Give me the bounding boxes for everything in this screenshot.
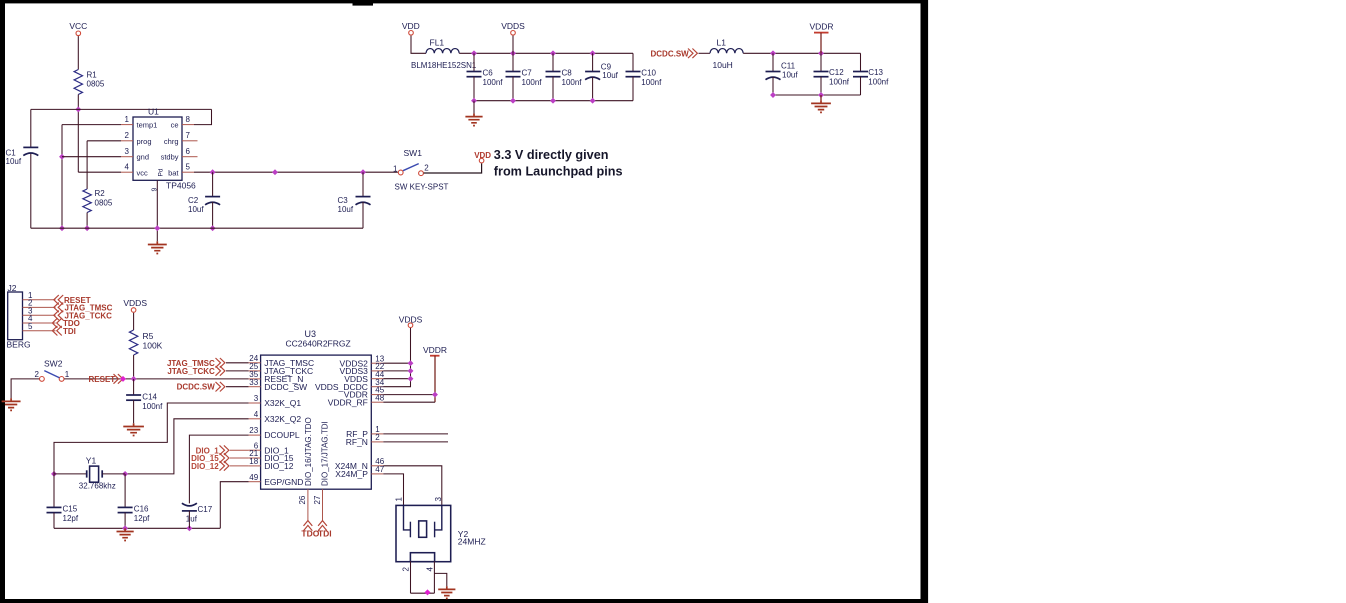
pin 2 of Y2: [410, 561, 412, 593]
node: [122, 471, 128, 477]
svg-text:DIO_12: DIO_12: [191, 462, 219, 471]
net flag TDI 2: [318, 521, 327, 526]
wire: [383, 378, 410, 380]
ground: [124, 528, 126, 531]
pin 3 gnd: [121, 156, 133, 158]
ground: [473, 113, 475, 116]
op IC U1 TP4056: [133, 117, 182, 180]
svg-text:10uf: 10uf: [6, 157, 22, 166]
resistor R2: [83, 189, 91, 213]
node VCC rail junction: [75, 106, 81, 112]
svg-text:2: 2: [401, 567, 410, 572]
capacitor C15: [53, 474, 55, 507]
wire to ground: [11, 379, 39, 398]
capacitor C2: [212, 172, 214, 196]
pin 23 DCOUPL: [249, 434, 261, 436]
net flag TDI: [57, 326, 62, 336]
svg-text:X32K_Q2: X32K_Q2: [264, 414, 301, 424]
svg-text:1: 1: [65, 370, 70, 379]
svg-text:18: 18: [249, 457, 258, 466]
pin 24 JTAG_TMSC: [249, 362, 261, 364]
svg-text:U3: U3: [305, 329, 317, 339]
node: [818, 50, 824, 56]
pin 2 RF_N: [371, 441, 383, 443]
node: [408, 368, 414, 374]
wire to VDD: [424, 163, 482, 173]
svg-text:2: 2: [424, 164, 429, 173]
node: [590, 50, 596, 56]
pin 1 of J2: [23, 299, 56, 301]
pin 34 VDDS_DCDC: [371, 386, 383, 388]
svg-text:10uH: 10uH: [713, 60, 733, 70]
svg-text:10uf: 10uf: [338, 205, 354, 214]
svg-text:3: 3: [254, 394, 259, 403]
node: [408, 360, 414, 366]
capacitor C14: [133, 379, 135, 395]
svg-text:SW2: SW2: [44, 359, 63, 369]
pin 3 X32K_Q1: [249, 402, 261, 404]
svg-text:47: 47: [375, 465, 384, 474]
net flag RESET: [58, 295, 63, 305]
pin 13 VDDS2: [371, 362, 383, 364]
wire: [133, 313, 135, 330]
pin 27 stub: [322, 489, 324, 520]
svg-text:JTAG_TCKC: JTAG_TCKC: [167, 367, 215, 376]
node: [131, 376, 137, 382]
ferrite bead FL1: [426, 49, 459, 54]
svg-text:C15: C15: [63, 505, 78, 514]
svg-text:12pf: 12pf: [63, 514, 79, 523]
node: [122, 525, 128, 531]
ground: [446, 586, 448, 589]
net flag TDO: [57, 318, 62, 328]
svg-text:R1: R1: [87, 71, 98, 80]
wire RF_P: [383, 433, 448, 435]
svg-text:DCDC.SW: DCDC.SW: [177, 383, 216, 392]
wire: [699, 52, 711, 54]
svg-text:RF_N: RF_N: [346, 437, 368, 447]
svg-text:7: 7: [186, 131, 191, 140]
node: [154, 225, 160, 231]
pin 25 JTAG_TCKC: [249, 370, 261, 372]
svg-text:24MHZ: 24MHZ: [458, 537, 486, 547]
wire VDDS vertical: [383, 328, 410, 387]
wire: [383, 401, 435, 403]
svg-text:C12: C12: [829, 68, 844, 77]
ground: [10, 398, 12, 401]
pin 8 ce: [182, 124, 194, 126]
svg-text:U1: U1: [148, 107, 159, 117]
capacitor C6: [473, 53, 475, 71]
svg-text:DIO_12: DIO_12: [264, 461, 294, 471]
svg-text:DIO_17/JTAG.TDI: DIO_17/JTAG.TDI: [321, 421, 330, 486]
inductor L1: [710, 49, 743, 54]
svg-text:stdby: stdby: [161, 153, 179, 162]
crystal Y2 24MHZ: [396, 505, 451, 561]
svg-text:1uf: 1uf: [186, 515, 198, 524]
svg-text:23: 23: [249, 426, 258, 435]
svg-text:2: 2: [35, 370, 40, 379]
svg-text:Pd: Pd: [158, 168, 165, 176]
wire: [411, 36, 426, 54]
svg-text:1: 1: [393, 164, 398, 173]
pin 47 X24M_P: [371, 473, 383, 475]
pin 4 X32K_Q2: [249, 418, 261, 420]
pin 22 VDDS3: [371, 370, 383, 372]
pin 5 of J2: [23, 330, 56, 332]
wire bat net: [194, 171, 398, 173]
pin 44 VDDS: [371, 378, 383, 380]
svg-text:C13: C13: [868, 68, 883, 77]
pin 48 VDDR_RF: [371, 401, 383, 403]
capacitor C7: [512, 53, 514, 71]
pin 46 X24M_N: [371, 465, 383, 467]
svg-text:R2: R2: [95, 189, 106, 198]
node: [818, 92, 824, 98]
svg-text:0805: 0805: [87, 80, 105, 89]
svg-text:vcc: vcc: [137, 168, 149, 177]
node: [550, 98, 556, 104]
node marker 2: [425, 589, 431, 595]
wire: [77, 95, 79, 173]
resistor R1: [74, 70, 82, 95]
svg-text:chrg: chrg: [164, 137, 179, 146]
pin 49 EGP/GND: [249, 481, 261, 483]
capacitor C12: [820, 53, 822, 71]
pin 5 bat: [182, 171, 194, 173]
wire pin2 net: [87, 140, 121, 142]
wire RESET net: [64, 378, 248, 380]
wire bottom rail 2: [773, 94, 861, 96]
wire X32K_Q1 net: [54, 403, 249, 471]
svg-text:gnd: gnd: [137, 153, 150, 162]
node: [590, 98, 596, 104]
svg-text:C8: C8: [562, 68, 573, 77]
wire: [230, 465, 249, 467]
capacitor C13: [860, 53, 862, 71]
net flag JTAG_TMSC: [58, 303, 63, 313]
capacitor C3: [362, 172, 364, 196]
node: [510, 98, 516, 104]
wire: [133, 355, 135, 379]
pin 45 VDDR: [371, 394, 383, 396]
wire EGP/GND net: [220, 482, 248, 529]
svg-text:12pf: 12pf: [134, 514, 150, 523]
svg-text:100nf: 100nf: [142, 402, 163, 411]
pin 6 DIO_1: [249, 449, 261, 451]
wire bottom rail: [474, 100, 633, 102]
wire pin1 net: [62, 124, 121, 126]
pin 9 wire: [156, 180, 158, 241]
pin 1 temp1: [121, 124, 133, 126]
pin 2 of J2: [23, 306, 56, 308]
node: [550, 50, 556, 56]
wire: [411, 592, 435, 594]
svg-text:100nf: 100nf: [562, 78, 583, 87]
capacitor C11: [772, 53, 774, 71]
svg-text:0805: 0805: [95, 199, 113, 208]
pin 1 RF_P: [371, 433, 383, 435]
svg-text:4: 4: [125, 163, 130, 172]
svg-text:8: 8: [186, 115, 191, 124]
svg-text:VDDS: VDDS: [123, 298, 147, 308]
svg-text:C6: C6: [483, 68, 494, 77]
node: [272, 169, 278, 175]
svg-text:1: 1: [394, 497, 403, 502]
pin 33 DCDC_SW: [249, 386, 261, 388]
node: [510, 50, 516, 56]
wire VDDR rail: [743, 52, 860, 54]
wire: [226, 370, 249, 372]
wire RF_N: [383, 441, 448, 443]
wire X24M_N: [383, 466, 442, 506]
node: [59, 225, 65, 231]
node: [471, 98, 477, 104]
svg-text:10uf: 10uf: [188, 205, 204, 214]
wire: [230, 449, 249, 451]
svg-text:SW KEY-SPST: SW KEY-SPST: [395, 182, 449, 191]
svg-text:RESET: RESET: [89, 375, 116, 384]
pin 4 of Y2: [433, 561, 435, 593]
svg-text:49: 49: [249, 473, 258, 482]
wire: [473, 101, 475, 114]
svg-text:5: 5: [186, 163, 191, 172]
wire: [383, 394, 435, 396]
node: [186, 525, 192, 531]
node C3: [360, 169, 366, 175]
svg-text:100nf: 100nf: [483, 78, 504, 87]
svg-text:temp1: temp1: [137, 121, 158, 130]
ground: [156, 241, 158, 244]
resistor R5: [129, 330, 137, 355]
wire: [226, 386, 249, 388]
wire DCOUPL net: [189, 435, 248, 503]
pin 7 chrg: [182, 140, 198, 142]
svg-text:prog: prog: [137, 137, 152, 146]
svg-text:X32K_Q1: X32K_Q1: [264, 398, 301, 408]
svg-text:C7: C7: [522, 68, 533, 77]
pin 6 stdby: [182, 156, 198, 158]
wire left vertical: [30, 109, 32, 147]
svg-text:bat: bat: [168, 168, 179, 177]
svg-text:10uf: 10uf: [782, 70, 798, 79]
wire X32K_Q2 net: [125, 419, 249, 474]
wire: [226, 362, 249, 364]
svg-text:X24M_P: X24M_P: [335, 469, 368, 479]
pin 4 vcc: [121, 171, 133, 173]
svg-text:100nf: 100nf: [641, 78, 662, 87]
svg-text:C14: C14: [142, 392, 157, 401]
wire: [383, 362, 410, 364]
pin 2 prog: [121, 140, 133, 142]
svg-text:DCDC.SW: DCDC.SW: [651, 50, 690, 59]
svg-text:C11: C11: [781, 61, 796, 70]
node: [770, 92, 776, 98]
svg-text:6: 6: [186, 147, 191, 156]
svg-text:L1: L1: [717, 37, 727, 47]
svg-text:32.768khz: 32.768khz: [79, 482, 116, 491]
capacitor C1: [23, 146, 38, 148]
node marker: [120, 376, 126, 382]
pin 35 RESET_N: [249, 378, 261, 380]
svg-text:VDDR: VDDR: [423, 345, 447, 355]
svg-text:DCDC_SW: DCDC_SW: [264, 382, 307, 392]
node: [471, 50, 477, 56]
pin 3 of J2: [23, 314, 56, 316]
svg-text:3: 3: [434, 497, 443, 502]
wire pin4 net: [78, 171, 121, 173]
svg-text:R5: R5: [143, 331, 154, 341]
svg-text:ce: ce: [171, 121, 179, 130]
wire VDDS rail: [459, 52, 633, 54]
net flag JTAG_TCKC: [58, 311, 63, 321]
svg-text:3: 3: [125, 147, 130, 156]
svg-text:VDD: VDD: [402, 21, 420, 31]
pin 18 DIO_12: [249, 465, 261, 467]
svg-text:EGP/GND: EGP/GND: [264, 477, 303, 487]
svg-text:VDDS: VDDS: [501, 21, 525, 31]
svg-text:C3: C3: [338, 196, 349, 205]
svg-text:10uf: 10uf: [602, 71, 618, 80]
node: [770, 50, 776, 56]
ground: [133, 423, 135, 426]
wire bottom rail 3: [54, 527, 220, 529]
svg-text:4: 4: [425, 567, 434, 572]
wire to ground: [434, 573, 446, 586]
wire: [512, 36, 514, 54]
svg-text:100nf: 100nf: [868, 77, 889, 86]
node: [408, 376, 414, 382]
wire: [86, 213, 88, 229]
capacitor C9: [592, 53, 594, 71]
svg-text:1: 1: [125, 115, 130, 124]
svg-text:from Launchpad pins: from Launchpad pins: [494, 163, 623, 178]
capacitor C16: [124, 474, 126, 507]
wire top rail: [31, 108, 212, 110]
svg-text:VDDR_RF: VDDR_RF: [328, 397, 368, 407]
svg-text:VCC: VCC: [69, 21, 87, 31]
svg-text:27: 27: [313, 495, 322, 504]
svg-text:BERG: BERG: [7, 340, 31, 350]
svg-text:4: 4: [254, 410, 259, 419]
capacitor C10: [632, 53, 634, 71]
net flag TDO 2: [304, 521, 313, 526]
svg-text:SW1: SW1: [404, 148, 423, 158]
svg-text:DIO_16/JTAG.TDO: DIO_16/JTAG.TDO: [304, 417, 313, 486]
svg-text:C17: C17: [198, 505, 213, 514]
svg-text:100K: 100K: [143, 341, 163, 351]
svg-text:VDD: VDD: [474, 151, 491, 160]
node: [432, 392, 438, 398]
svg-text:5: 5: [28, 322, 33, 331]
power flag VDD: [479, 158, 484, 163]
svg-text:BLM18HE152SN1: BLM18HE152SN1: [411, 61, 477, 70]
wire bottom rail: [31, 227, 363, 229]
pin 4 of J2: [23, 322, 56, 324]
node: [59, 154, 65, 160]
svg-text:C10: C10: [641, 68, 656, 77]
svg-text:TDI: TDI: [318, 529, 332, 539]
svg-text:2: 2: [125, 131, 130, 140]
node C2: [210, 169, 216, 175]
svg-text:3.3 V directly given: 3.3 V directly given: [494, 147, 609, 162]
svg-text:Y1: Y1: [86, 456, 97, 466]
node: [210, 225, 216, 231]
border frame: [0, 0, 928, 3]
svg-text:C16: C16: [134, 505, 149, 514]
capacitor C8: [552, 53, 554, 71]
node: [51, 471, 57, 477]
wire: [230, 457, 249, 459]
svg-text:100nf: 100nf: [522, 78, 543, 87]
wire: [383, 370, 410, 372]
svg-text:26: 26: [298, 495, 307, 504]
ground: [820, 100, 822, 103]
svg-text:TDI: TDI: [63, 327, 76, 336]
svg-text:VDDR: VDDR: [809, 21, 833, 31]
wire to pin 8: [194, 109, 212, 124]
node: [84, 225, 90, 231]
svg-text:DCOUPL: DCOUPL: [264, 430, 300, 440]
svg-text:2: 2: [375, 433, 380, 442]
svg-text:C2: C2: [188, 196, 199, 205]
svg-text:33: 33: [249, 378, 258, 387]
svg-text:CC2640R2FRGZ: CC2640R2FRGZ: [286, 339, 351, 349]
capacitor C17: [182, 503, 197, 506]
svg-text:TP4056: TP4056: [166, 180, 196, 190]
wire: [77, 36, 79, 69]
pin 21 DIO_15: [249, 457, 261, 459]
svg-text:100nf: 100nf: [829, 77, 850, 86]
wire pin3 net: [62, 156, 121, 158]
wire X24M_P: [383, 474, 403, 506]
wire: [820, 95, 822, 100]
pin 26 stub: [307, 489, 309, 520]
svg-text:FL1: FL1: [430, 37, 445, 47]
